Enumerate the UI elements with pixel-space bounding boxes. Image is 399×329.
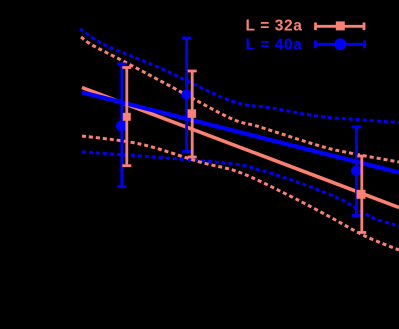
- blue solid fit line L=40a: [82, 92, 399, 172]
- pink solid fit line L=32a: [82, 88, 399, 208]
- legend entry L=40a: [246, 37, 365, 54]
- pink error bar 1: [122, 68, 131, 166]
- pink error bar 2: [188, 71, 197, 157]
- legend entry L=32a: [246, 18, 365, 35]
- blue error bar 3: [352, 127, 362, 216]
- blue error bar 2: [182, 38, 191, 151]
- lower pink dashed confidence band: [82, 136, 399, 250]
- blue error bar 1: [117, 64, 127, 187]
- pink error bar 3: [357, 156, 366, 233]
- svg-text:L = 32a: L = 32a: [246, 18, 303, 35]
- lower blue dashed confidence band: [82, 152, 399, 226]
- upper pink dashed confidence band: [81, 37, 399, 162]
- upper blue dashed confidence band: [80, 29, 399, 123]
- svg-text:L = 40a: L = 40a: [246, 37, 303, 54]
